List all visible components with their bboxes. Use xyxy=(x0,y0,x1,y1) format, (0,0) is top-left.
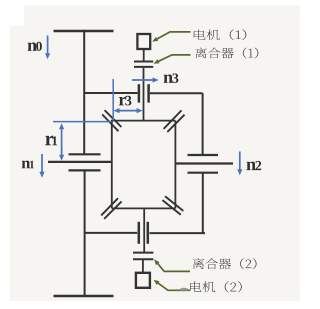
top horizontal shaft left segment xyxy=(84,92,137,94)
bevel gear mesh hatch top-right xyxy=(164,110,182,128)
label r3 xyxy=(119,97,126,106)
clutch C2 plate 2 xyxy=(133,258,153,260)
planet carrier frame left edge xyxy=(111,120,113,209)
label 电机（1） xyxy=(194,29,247,40)
clutch C2 plate 1 xyxy=(133,252,153,254)
bevel gear mesh hatch bottom-right xyxy=(165,196,183,211)
shaft 0 top end cap xyxy=(54,30,114,33)
gear z3 right bar xyxy=(147,84,150,102)
clutch C1 plate 2 xyxy=(134,66,153,68)
gear z2 lower bar (right) xyxy=(188,172,219,174)
label n0 xyxy=(28,42,37,50)
dimension arrow r1 (double head) xyxy=(61,128,63,157)
gear z1 upper bar (left) xyxy=(69,153,101,155)
gear z1 lower bar (left) xyxy=(69,169,101,171)
gear z2 upper bar (right) xyxy=(188,154,219,156)
top horizontal shaft right segment xyxy=(150,92,203,94)
shaft clutch2 to motor2 xyxy=(142,259,144,273)
pointer arrow to motor M1 xyxy=(155,32,190,40)
label 电机（2） xyxy=(190,281,242,292)
label n1 xyxy=(22,161,30,169)
shaft 1 bottom end cap xyxy=(54,295,114,298)
central shaft 3 lower xyxy=(143,208,145,252)
pointer arrow to clutch C1 xyxy=(157,55,191,62)
gear z4 right bar xyxy=(147,222,150,244)
gear z4 left bar xyxy=(138,222,141,244)
speed arrow n1 xyxy=(41,154,43,173)
label r1 xyxy=(45,136,53,146)
planet carrier frame right edge xyxy=(174,121,176,209)
label n2 xyxy=(247,162,256,170)
dimension extension line r1 xyxy=(53,121,112,123)
central shaft 3 upper xyxy=(143,68,145,121)
speed arrow n2 xyxy=(239,152,241,171)
label 离合器（1） xyxy=(195,48,258,59)
planet carrier frame top edge xyxy=(112,120,176,122)
bottom horizontal shaft right segment xyxy=(150,232,206,234)
right carrier arm (long line) xyxy=(175,162,233,164)
dimension arrow r3 (double head) xyxy=(118,110,139,112)
planet carrier frame bottom edge xyxy=(112,207,176,209)
bottom horizontal shaft left segment xyxy=(85,232,138,234)
shaft 2 lower right vertical xyxy=(202,173,204,233)
bevel gear mesh hatch bottom-left xyxy=(101,198,118,215)
shaft motor1 to clutch1 xyxy=(143,49,145,61)
shaft 1 lower left vertical xyxy=(84,170,86,296)
pointer arrow to clutch C2 xyxy=(157,262,191,271)
arrow smudge near motor2 label xyxy=(180,288,189,292)
dimension extension line r3 xyxy=(112,79,114,121)
label n3 xyxy=(164,74,173,82)
speed arrow n0 xyxy=(47,36,49,55)
speed arrow n3 xyxy=(132,79,154,81)
left carrier arm (long line) xyxy=(48,161,112,163)
gear z3 left bar xyxy=(138,84,141,102)
label 离合器（2） xyxy=(192,258,256,269)
bevel gear mesh hatch top-left xyxy=(102,114,118,131)
shaft 0 upper left vertical xyxy=(83,30,85,154)
clutch C1 plate 1 xyxy=(134,61,153,63)
motor M1 square xyxy=(137,34,150,49)
motor M2 square xyxy=(136,273,150,288)
right frame vertical upper xyxy=(202,93,204,155)
pointer arrow to motor M2 xyxy=(157,282,191,290)
